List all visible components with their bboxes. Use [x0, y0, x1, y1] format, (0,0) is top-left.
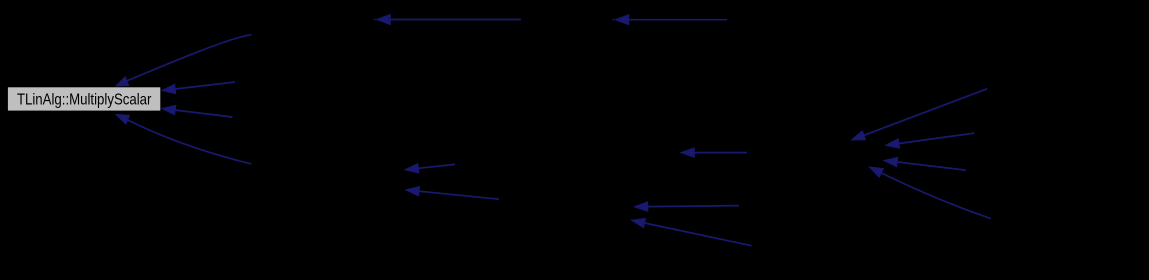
- edge J3 right fan arrow: [884, 157, 966, 170]
- edge J1 right fan long arrow: [852, 89, 988, 140]
- svg-text:TLinAlg::MultiplyScalar: TLinAlg::MultiplyScalar: [17, 92, 152, 109]
- edge H2 near-horizontal arrow: [634, 202, 739, 211]
- edge E4 curve into box bottom edge: [116, 115, 251, 164]
- node box TLinAlg::MultiplyScalar: [7, 87, 161, 112]
- edge G1 middle short arrow: [405, 164, 455, 173]
- edge H1 horizontal arrow: [681, 148, 747, 157]
- edge E1 curve into box top edge: [116, 35, 251, 86]
- edge A2 top horizontal arrow: [612, 15, 727, 25]
- edge A1 top horizontal arrow: [374, 15, 521, 25]
- edge J4 right fan curve: [869, 167, 990, 219]
- edge E2 into box right edge upper: [162, 82, 235, 94]
- edge H3 long angled arrow: [632, 218, 752, 245]
- edge E3 into box right edge lower: [162, 105, 233, 117]
- edge G2 middle angled arrow: [406, 187, 499, 200]
- edge J2 right fan arrow: [886, 133, 975, 148]
